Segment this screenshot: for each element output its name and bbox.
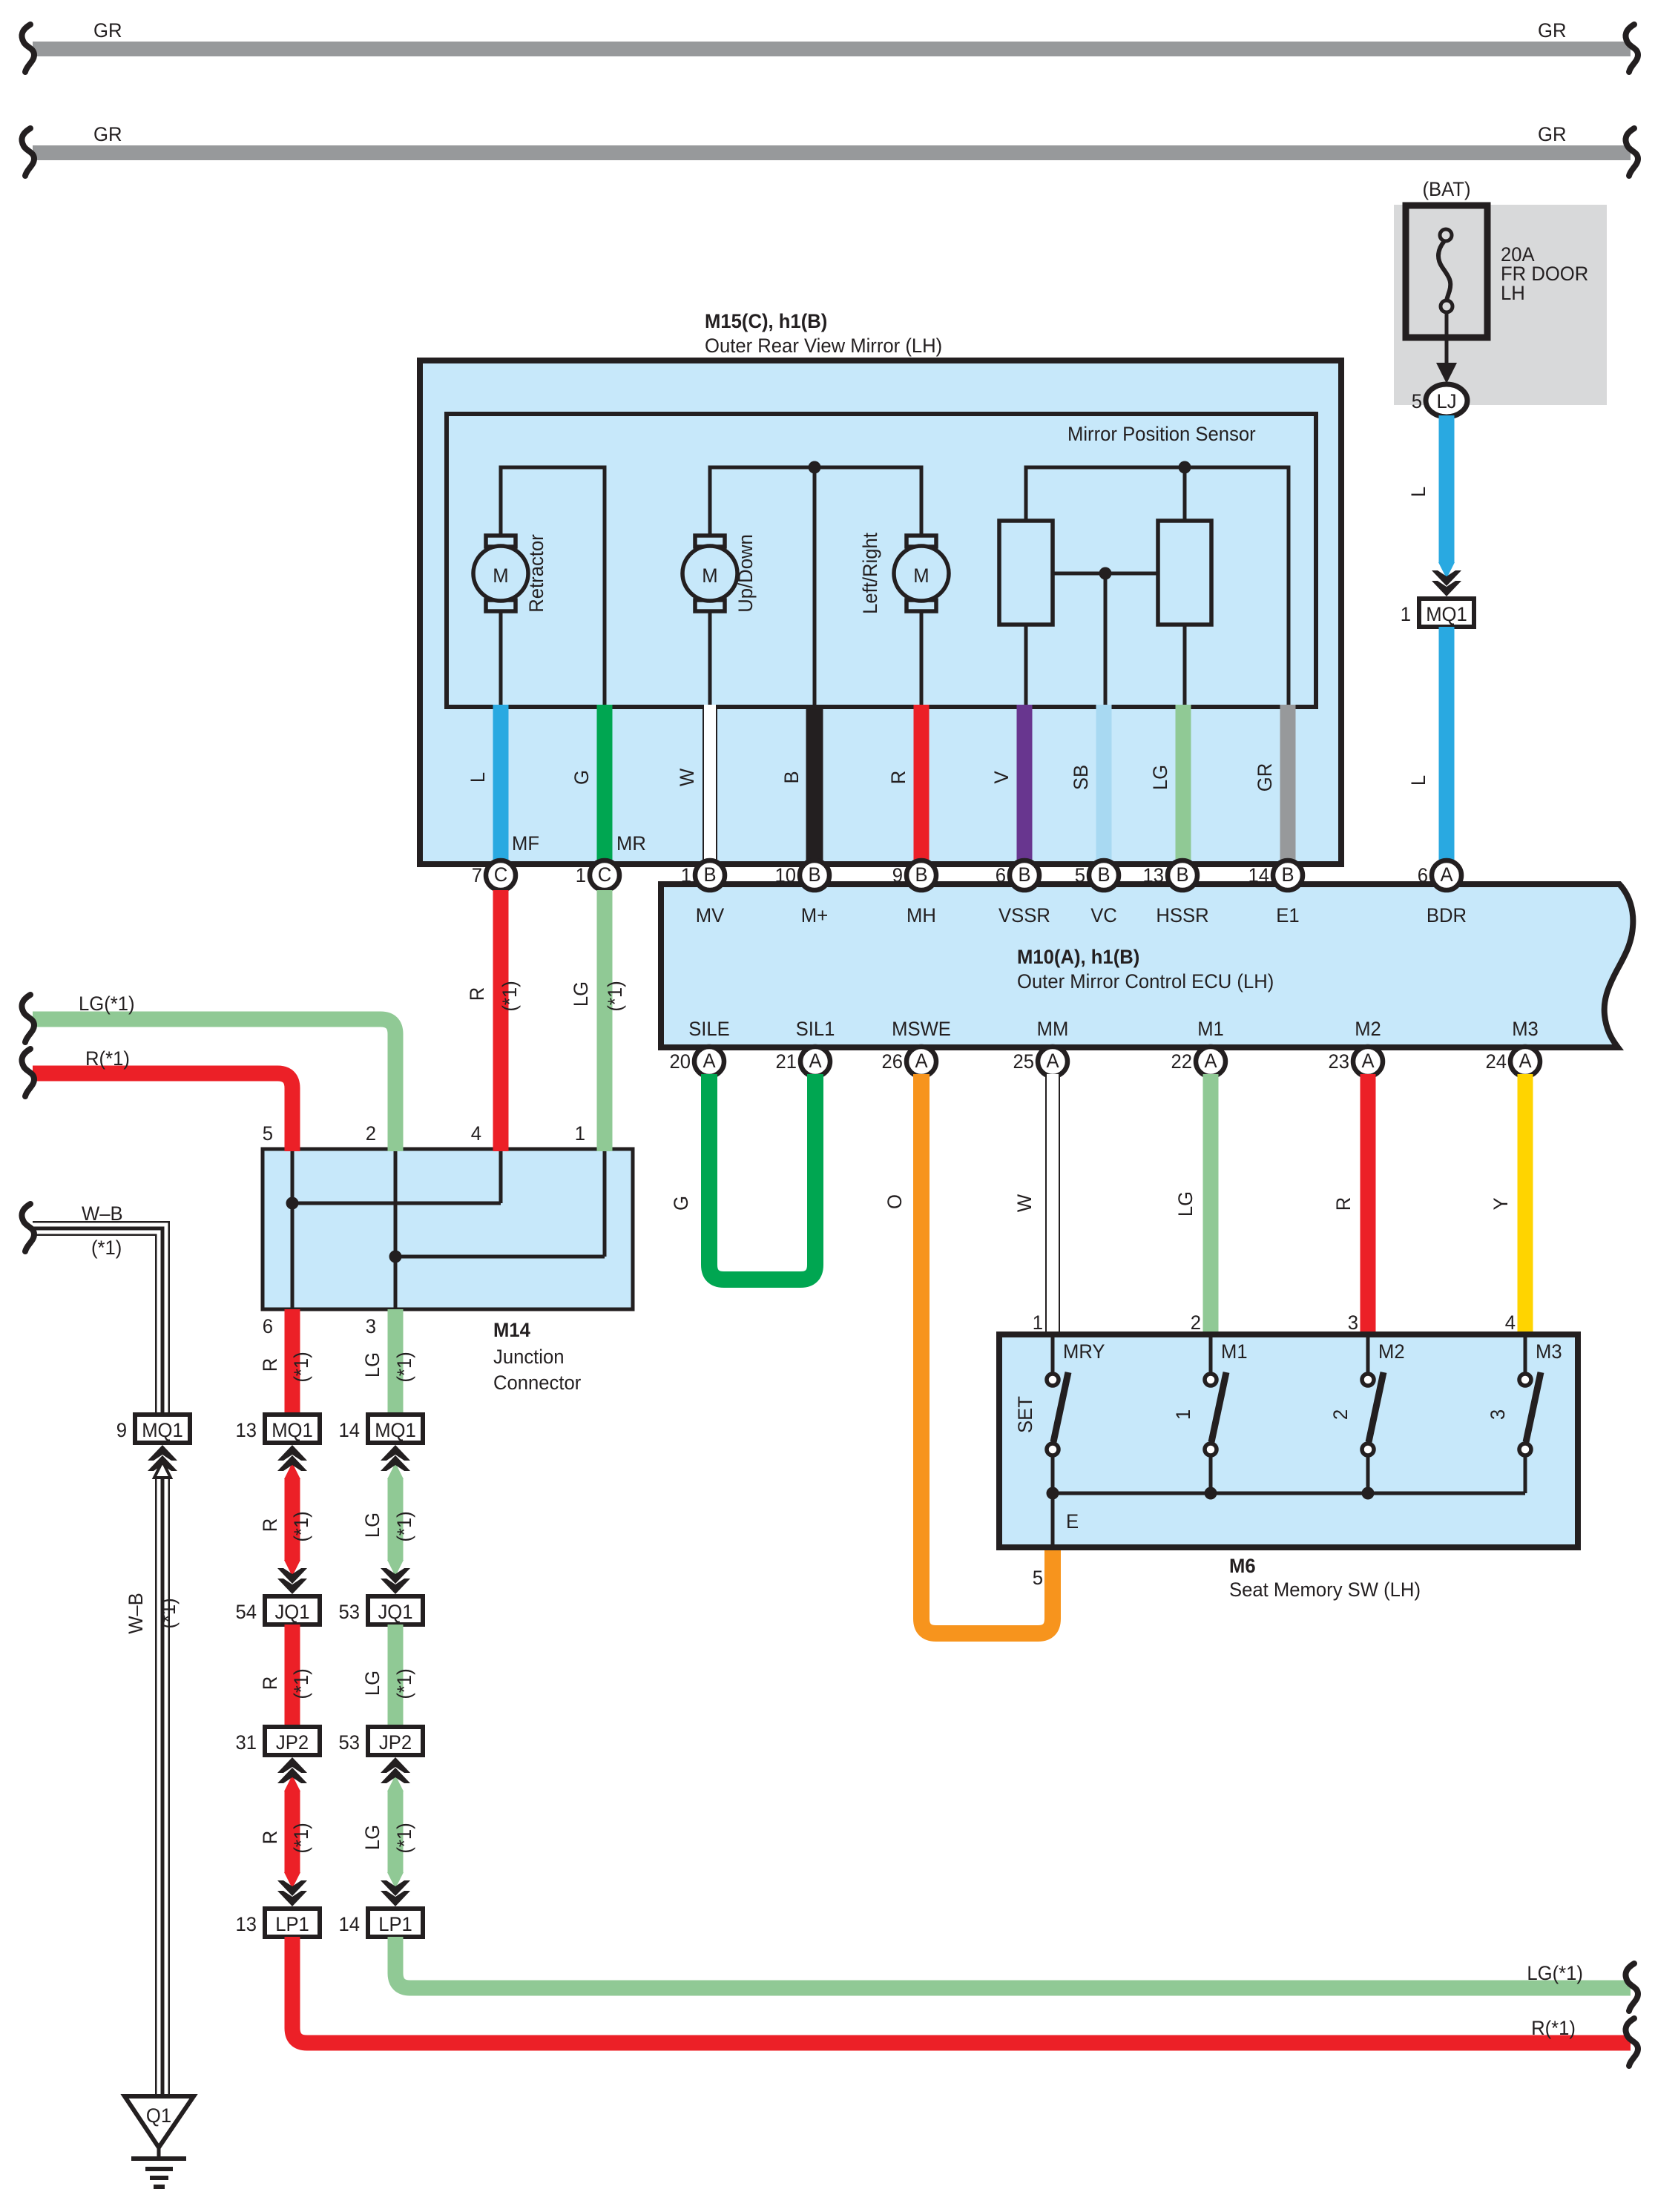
svg-text:A: A xyxy=(1440,863,1452,886)
svg-text:G: G xyxy=(570,770,593,785)
node MH pin 9(B) xyxy=(892,860,936,890)
connector 1 MQ1 (battery feed) xyxy=(1401,599,1474,627)
svg-text:MH: MH xyxy=(907,904,936,926)
svg-text:13: 13 xyxy=(1143,864,1165,886)
svg-text:A: A xyxy=(1204,1050,1217,1072)
wire common line in M6 xyxy=(1033,1487,1525,1590)
svg-text:SILE: SILE xyxy=(688,1018,730,1040)
wire LG JP2 to LP1 xyxy=(361,1757,415,1906)
junction chevrons into MQ1 xyxy=(1432,570,1461,596)
node M2 pin 23(A) xyxy=(1329,1047,1383,1076)
svg-text:1: 1 xyxy=(576,864,586,886)
svg-text:VC: VC xyxy=(1090,904,1117,926)
svg-text:Outer Rear View Mirror (LH): Outer Rear View Mirror (LH) xyxy=(705,335,942,357)
svg-text:B: B xyxy=(1176,863,1188,886)
connector 54 JQ1 xyxy=(236,1596,320,1625)
svg-text:SB: SB xyxy=(1070,765,1092,790)
switch M2 xyxy=(1329,1334,1405,1493)
svg-text:(*1): (*1) xyxy=(157,1598,180,1628)
svg-text:B: B xyxy=(703,863,716,886)
svg-text:9: 9 xyxy=(892,864,903,886)
connector 13 MQ1 xyxy=(236,1415,320,1443)
svg-text:GR: GR xyxy=(1538,123,1567,145)
connector 53 JQ1 xyxy=(339,1596,424,1625)
svg-text:24: 24 xyxy=(1486,1050,1507,1073)
svg-text:C: C xyxy=(494,863,508,886)
svg-text:MQ1: MQ1 xyxy=(142,1419,183,1441)
wire W MM to M6 pin 1 xyxy=(1013,1074,1053,1337)
svg-text:SET: SET xyxy=(1014,1396,1036,1433)
svg-text:(*1): (*1) xyxy=(393,1668,415,1699)
svg-text:1: 1 xyxy=(1172,1409,1194,1420)
component M6 Seat Memory SW (LH) xyxy=(999,1334,1578,1601)
svg-text:MQ1: MQ1 xyxy=(1426,603,1467,625)
svg-text:B: B xyxy=(780,771,803,783)
component M15 Outer Rear View Mirror (LH) xyxy=(420,310,1341,864)
svg-text:JP2: JP2 xyxy=(276,1731,309,1754)
svg-text:23: 23 xyxy=(1329,1050,1350,1073)
svg-text:W–B: W–B xyxy=(125,1593,147,1634)
switch M3 xyxy=(1487,1334,1562,1493)
node M3 pin 24(A) xyxy=(1486,1047,1541,1076)
svg-text:M3: M3 xyxy=(1536,1340,1562,1363)
svg-text:5: 5 xyxy=(263,1122,273,1145)
connector M14 Junction Connector xyxy=(263,1122,633,1394)
svg-text:2: 2 xyxy=(366,1122,376,1145)
svg-text:W–B: W–B xyxy=(82,1202,123,1225)
svg-text:54: 54 xyxy=(236,1601,257,1623)
svg-text:LJ: LJ xyxy=(1436,390,1456,412)
svg-text:6: 6 xyxy=(1418,864,1428,886)
wire R(*1) from left to M14 pin 5 xyxy=(22,1047,292,1151)
connector 9 MQ1 xyxy=(116,1415,190,1443)
wire R JP2 to LP1 xyxy=(259,1757,312,1906)
svg-text:3: 3 xyxy=(366,1315,376,1337)
inner mirror housing box xyxy=(447,414,1316,707)
svg-text:GR: GR xyxy=(93,19,122,42)
motor M Retractor xyxy=(473,534,547,613)
svg-text:13: 13 xyxy=(236,1913,257,1935)
svg-text:G: G xyxy=(670,1196,692,1211)
svg-text:A: A xyxy=(1046,1050,1059,1072)
svg-text:M: M xyxy=(493,564,508,587)
svg-text:Y: Y xyxy=(1490,1197,1512,1210)
svg-text:(*1): (*1) xyxy=(290,1823,312,1853)
svg-text:1: 1 xyxy=(1401,603,1411,625)
svg-text:A: A xyxy=(1361,1050,1374,1072)
wire GR bus 2 xyxy=(22,123,1638,176)
wire R MQ1 to JQ1 xyxy=(259,1445,312,1594)
svg-text:(*1): (*1) xyxy=(91,1237,122,1259)
svg-text:B: B xyxy=(1018,863,1030,886)
svg-text:B: B xyxy=(1097,863,1110,886)
svg-text:1: 1 xyxy=(681,864,691,886)
svg-text:R(*1): R(*1) xyxy=(85,1047,130,1070)
node SIL1 pin 21(A) xyxy=(776,1047,831,1076)
svg-text:LG: LG xyxy=(1174,1191,1197,1217)
svg-text:O: O xyxy=(884,1194,906,1209)
svg-text:M14: M14 xyxy=(493,1319,530,1341)
node BDR pin 6(A) xyxy=(1418,860,1461,890)
svg-text:R: R xyxy=(259,1358,281,1372)
switch MRY xyxy=(1014,1334,1105,1493)
svg-text:W: W xyxy=(676,768,698,786)
node MR pin 1(C) xyxy=(576,860,619,890)
svg-text:R: R xyxy=(259,1831,281,1845)
svg-text:LP1: LP1 xyxy=(378,1913,412,1935)
svg-text:3: 3 xyxy=(1348,1311,1358,1334)
svg-text:M15(C), h1(B): M15(C), h1(B) xyxy=(705,310,827,332)
svg-text:B: B xyxy=(1281,863,1294,886)
wire B stub in M15 xyxy=(780,705,815,862)
wire LG(*1) from left to M14 pin 2 xyxy=(22,993,395,1151)
svg-text:R(*1): R(*1) xyxy=(1531,2017,1576,2039)
node M1 pin 22(A) xyxy=(1171,1047,1226,1076)
svg-text:LG: LG xyxy=(1149,765,1171,790)
svg-text:53: 53 xyxy=(339,1601,361,1623)
svg-text:M: M xyxy=(913,564,929,587)
wire motors common top line xyxy=(710,461,921,705)
svg-text:JQ1: JQ1 xyxy=(274,1601,309,1623)
svg-text:R: R xyxy=(887,771,909,785)
svg-text:14: 14 xyxy=(339,1913,361,1935)
svg-text:V: V xyxy=(990,771,1013,783)
fuse 20A FR DOOR LH xyxy=(1394,178,1607,405)
svg-text:10: 10 xyxy=(775,864,797,886)
ground Q1 xyxy=(125,2096,194,2187)
svg-text:A: A xyxy=(809,1050,821,1072)
motor M Up/Down xyxy=(682,534,757,613)
wire GR stub in M15 xyxy=(1254,705,1288,862)
node MF pin 7(C) xyxy=(472,860,516,890)
svg-text:(BAT): (BAT) xyxy=(1422,178,1470,200)
svg-text:Left/Right: Left/Right xyxy=(859,533,881,614)
svg-text:L: L xyxy=(467,772,489,783)
wire R M14 pin 6 to MQ1 xyxy=(259,1309,312,1415)
wire O MSWE to M6 pin 5 xyxy=(884,1074,1053,1633)
svg-text:5: 5 xyxy=(1075,864,1085,886)
svg-text:1: 1 xyxy=(575,1122,585,1145)
svg-text:SIL1: SIL1 xyxy=(796,1018,835,1040)
svg-text:MSWE: MSWE xyxy=(892,1018,951,1040)
svg-text:HSSR: HSSR xyxy=(1156,904,1208,926)
svg-text:20: 20 xyxy=(670,1050,691,1073)
svg-text:LG: LG xyxy=(361,1352,384,1377)
svg-text:E: E xyxy=(1066,1510,1079,1533)
svg-text:M3: M3 xyxy=(1512,1018,1539,1040)
svg-text:MQ1: MQ1 xyxy=(272,1419,313,1441)
svg-text:Junction: Junction xyxy=(493,1346,565,1368)
wire LG stub in M15 xyxy=(1149,705,1183,862)
node M+ pin 10(B) xyxy=(775,860,830,890)
svg-text:(*1): (*1) xyxy=(393,1352,415,1382)
svg-text:Up/Down: Up/Down xyxy=(734,534,757,613)
switch M1 xyxy=(1172,1334,1248,1493)
svg-text:M10(A), h1(B): M10(A), h1(B) xyxy=(1017,946,1139,968)
wire L stub in M15 xyxy=(467,705,501,862)
svg-text:6: 6 xyxy=(996,864,1006,886)
wire V stub in M15 xyxy=(990,705,1024,862)
svg-text:26: 26 xyxy=(882,1050,904,1073)
svg-text:JQ1: JQ1 xyxy=(378,1601,412,1623)
node MSWE pin 26(A) xyxy=(882,1047,937,1076)
node MV pin 1(B) xyxy=(681,860,725,890)
svg-text:MR: MR xyxy=(616,832,646,855)
svg-text:LG: LG xyxy=(570,981,592,1007)
svg-text:M2: M2 xyxy=(1355,1018,1381,1040)
svg-text:M1: M1 xyxy=(1221,1340,1248,1363)
wire LG MR to M14 pin 1 xyxy=(570,890,626,1151)
motor M Left/Right xyxy=(859,533,949,614)
svg-text:JP2: JP2 xyxy=(379,1731,412,1754)
svg-text:C: C xyxy=(598,863,612,886)
svg-text:2: 2 xyxy=(1329,1409,1352,1420)
svg-text:53: 53 xyxy=(339,1731,361,1754)
svg-text:M6: M6 xyxy=(1229,1555,1256,1577)
wire W-B MQ1 to ground xyxy=(125,1445,180,2096)
node VC pin 5(B) xyxy=(1075,860,1119,890)
svg-text:5: 5 xyxy=(1412,390,1422,412)
svg-text:Mirror Position Sensor: Mirror Position Sensor xyxy=(1067,423,1256,445)
wire W-B from left to MQ1 xyxy=(22,1202,162,1415)
wire R MF to M14 pin 4 xyxy=(466,890,521,1151)
svg-text:A: A xyxy=(1519,1050,1531,1072)
svg-text:7: 7 xyxy=(472,864,482,886)
svg-text:4: 4 xyxy=(1505,1311,1516,1334)
svg-text:A: A xyxy=(915,1050,927,1072)
connector 5 LJ xyxy=(1412,384,1467,417)
svg-text:M1: M1 xyxy=(1197,1018,1224,1040)
svg-text:M+: M+ xyxy=(801,904,828,926)
svg-text:3: 3 xyxy=(1487,1409,1509,1420)
wire LG JQ1 to JP2 xyxy=(361,1625,415,1727)
svg-text:L: L xyxy=(1407,775,1429,786)
ECU M10(A), h1(B) Outer Mirror Control ECU (LH) xyxy=(661,884,1633,1047)
svg-text:(*1): (*1) xyxy=(290,1668,312,1699)
svg-text:(*1): (*1) xyxy=(499,981,521,1011)
wire SB stub in M15 xyxy=(1070,705,1104,862)
wire LG M1 to M6 pin 2 xyxy=(1174,1074,1211,1337)
svg-text:31: 31 xyxy=(236,1731,257,1754)
connector 13 LP1 xyxy=(236,1909,320,1937)
svg-text:A: A xyxy=(703,1050,715,1072)
wire LG M14 pin 3 to MQ1 xyxy=(361,1309,415,1415)
svg-text:Seat Memory SW (LH): Seat Memory SW (LH) xyxy=(1229,1579,1421,1601)
svg-text:5: 5 xyxy=(1033,1567,1043,1589)
svg-text:LP1: LP1 xyxy=(275,1913,309,1935)
mirror position sensor xyxy=(999,423,1289,705)
svg-text:(*1): (*1) xyxy=(290,1352,312,1382)
svg-text:14: 14 xyxy=(339,1419,361,1441)
svg-text:(*1): (*1) xyxy=(393,1511,415,1541)
connector 53 JP2 xyxy=(339,1727,424,1755)
svg-text:25: 25 xyxy=(1013,1050,1035,1073)
wire L to BDR xyxy=(1407,627,1447,864)
connector 31 JP2 xyxy=(236,1727,320,1755)
node VSSR pin 6(B) xyxy=(996,860,1039,890)
svg-text:21: 21 xyxy=(776,1050,797,1073)
svg-text:GR: GR xyxy=(1538,19,1567,42)
svg-text:9: 9 xyxy=(116,1419,127,1441)
svg-text:LG: LG xyxy=(361,1512,384,1538)
wire R JQ1 to JP2 xyxy=(259,1625,312,1727)
svg-text:R: R xyxy=(259,1518,281,1533)
svg-text:R: R xyxy=(1332,1197,1355,1211)
svg-text:LG(*1): LG(*1) xyxy=(1527,1962,1583,1984)
svg-text:B: B xyxy=(808,863,820,886)
connector 14 MQ1 xyxy=(339,1415,424,1443)
svg-text:MM: MM xyxy=(1037,1018,1069,1040)
svg-text:22: 22 xyxy=(1171,1050,1193,1073)
wire Y M3 to M6 pin 4 xyxy=(1490,1074,1525,1337)
svg-text:LH: LH xyxy=(1501,282,1525,304)
node SILE pin 20(A) xyxy=(670,1047,725,1076)
wire L battery feed upper xyxy=(1407,415,1455,579)
svg-text:MQ1: MQ1 xyxy=(375,1419,416,1441)
connector 14 LP1 xyxy=(339,1909,424,1937)
svg-text:6: 6 xyxy=(263,1315,273,1337)
svg-text:14: 14 xyxy=(1248,864,1270,886)
svg-text:Outer Mirror Control ECU (LH): Outer Mirror Control ECU (LH) xyxy=(1017,970,1274,993)
svg-text:GR: GR xyxy=(1254,763,1276,792)
svg-text:L: L xyxy=(1407,487,1429,497)
node MM pin 25(A) xyxy=(1013,1047,1068,1076)
svg-text:MRY: MRY xyxy=(1063,1340,1105,1363)
wire G SILE-SIL1 loop xyxy=(670,1074,815,1280)
wire G stub in M15 xyxy=(570,705,605,862)
wire R stub in M15 xyxy=(887,705,921,862)
svg-text:(*1): (*1) xyxy=(290,1511,312,1541)
wire LG MQ1 to JQ1 xyxy=(361,1445,415,1594)
node E1 pin 14(B) xyxy=(1248,860,1303,890)
svg-text:GR: GR xyxy=(93,123,122,145)
svg-text:VSSR: VSSR xyxy=(998,904,1050,926)
svg-text:1: 1 xyxy=(1033,1311,1043,1334)
svg-text:MV: MV xyxy=(696,904,725,926)
wire LG(*1) LP1 to right edge xyxy=(395,1937,1638,2011)
svg-text:(*1): (*1) xyxy=(393,1823,415,1853)
svg-text:2: 2 xyxy=(1191,1311,1201,1334)
wire R(*1) LP1 to right edge xyxy=(292,1937,1638,2066)
wire R M2 to M6 pin 3 xyxy=(1332,1074,1368,1337)
motor M1 Retractor loop wires xyxy=(501,467,605,705)
svg-text:M2: M2 xyxy=(1378,1340,1405,1363)
svg-text:W: W xyxy=(1013,1194,1036,1212)
svg-text:M: M xyxy=(702,564,717,587)
svg-text:(*1): (*1) xyxy=(604,981,626,1011)
node HSSR pin 13(B) xyxy=(1143,860,1198,890)
svg-text:E1: E1 xyxy=(1276,904,1299,926)
svg-text:Q1: Q1 xyxy=(146,2104,171,2127)
svg-text:B: B xyxy=(915,863,927,886)
wire W stub in M15 xyxy=(676,705,710,862)
svg-text:Retractor: Retractor xyxy=(525,534,547,613)
svg-text:LG(*1): LG(*1) xyxy=(79,993,135,1015)
svg-text:MF: MF xyxy=(512,832,539,855)
svg-text:R: R xyxy=(259,1676,281,1691)
svg-text:13: 13 xyxy=(236,1419,257,1441)
svg-text:BDR: BDR xyxy=(1427,904,1467,926)
wire GR bus 1 xyxy=(22,19,1638,72)
svg-text:LG: LG xyxy=(361,1825,384,1850)
svg-text:LG: LG xyxy=(361,1670,384,1696)
svg-text:R: R xyxy=(466,987,488,1001)
svg-text:Connector: Connector xyxy=(493,1372,581,1394)
svg-text:4: 4 xyxy=(471,1122,481,1145)
